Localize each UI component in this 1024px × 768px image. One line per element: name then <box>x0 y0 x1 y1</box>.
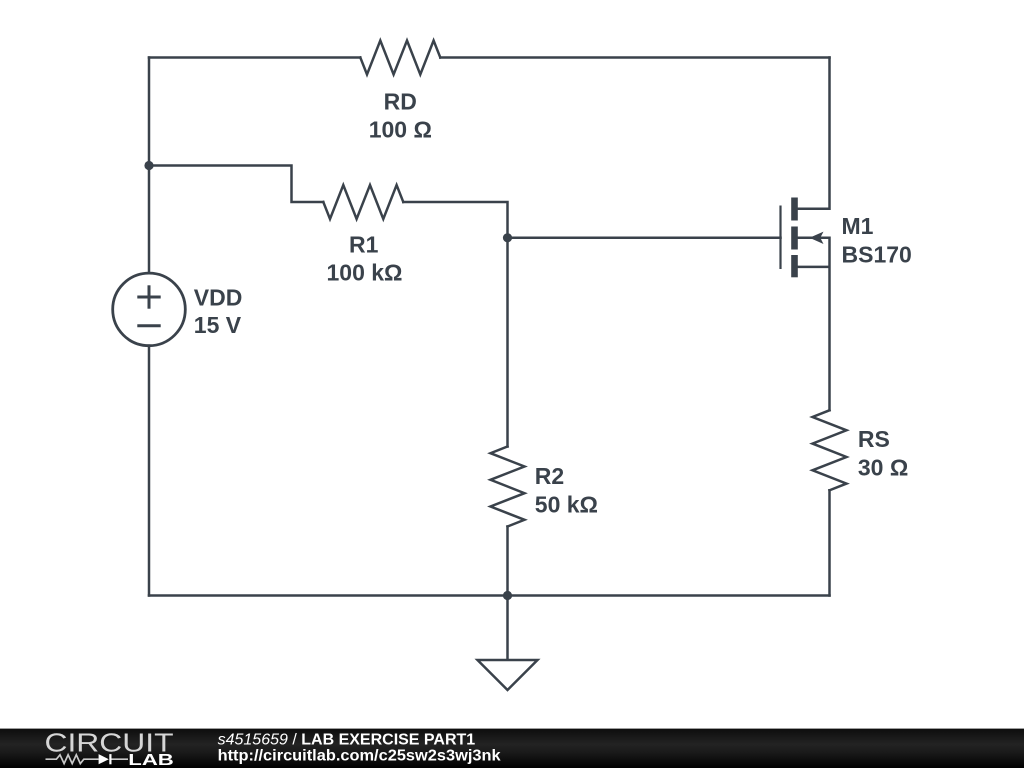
logo doodle wire <box>46 755 99 764</box>
svg-text:RS: RS <box>858 426 890 452</box>
ground <box>478 660 538 690</box>
logo diode <box>99 754 109 764</box>
svg-text:100 Ω: 100 Ω <box>369 117 432 143</box>
resistor R2 <box>491 447 525 527</box>
wire R2 to bottom rail <box>506 527 509 596</box>
node gate <box>503 233 512 242</box>
resistor R1 <box>323 185 403 219</box>
wire gate lead <box>508 237 781 240</box>
svg-text:100 kΩ: 100 kΩ <box>327 259 403 285</box>
svg-text:s4515659 / LAB EXERCISE PART1: s4515659 / LAB EXERCISE PART1 <box>218 731 476 748</box>
svg-text:15 V: 15 V <box>194 312 242 338</box>
svg-text:BS170: BS170 <box>842 241 912 267</box>
wire bottom rail <box>149 594 830 597</box>
svg-text:LAB: LAB <box>128 752 174 768</box>
svg-text:30 Ω: 30 Ω <box>858 455 908 481</box>
svg-text:M1: M1 <box>842 213 874 239</box>
wire branch to R1 <box>149 166 323 203</box>
wire left rail lower <box>148 346 151 596</box>
svg-text:R1: R1 <box>349 231 379 257</box>
wire ground stem <box>506 596 509 661</box>
wire right rail lower <box>828 490 831 595</box>
node A <box>144 161 153 170</box>
svg-text:50 kΩ: 50 kΩ <box>535 491 598 517</box>
wire right rail middle <box>828 238 831 410</box>
node ground <box>503 591 512 600</box>
wire right rail upper <box>828 58 831 209</box>
wire top right lead <box>440 56 829 59</box>
transistor M1 <box>781 198 830 278</box>
footer bar <box>0 729 1024 768</box>
svg-text:http://circuitlab.com/c25sw2s3: http://circuitlab.com/c25sw2s3wj3nk <box>218 747 501 764</box>
svg-text:R2: R2 <box>535 463 564 489</box>
wire left rail upper <box>148 58 151 274</box>
wire top left lead <box>149 56 360 59</box>
voltage source VDD <box>113 273 186 346</box>
resistor RD <box>360 41 440 75</box>
svg-text:RD: RD <box>384 89 417 115</box>
resistor RS <box>813 410 847 490</box>
wire gate node to R2 <box>506 238 509 447</box>
svg-text:VDD: VDD <box>194 285 243 311</box>
wire R1 to gate node <box>403 202 507 238</box>
